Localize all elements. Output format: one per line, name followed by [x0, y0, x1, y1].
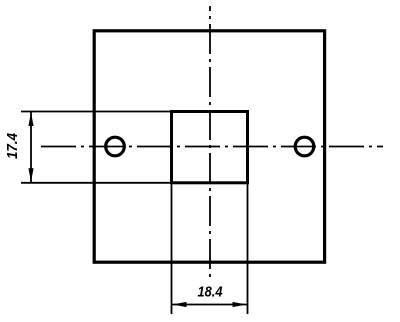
svg-text:18.4: 18.4 [198, 284, 224, 301]
svg-text:17.4: 17.4 [4, 132, 21, 159]
